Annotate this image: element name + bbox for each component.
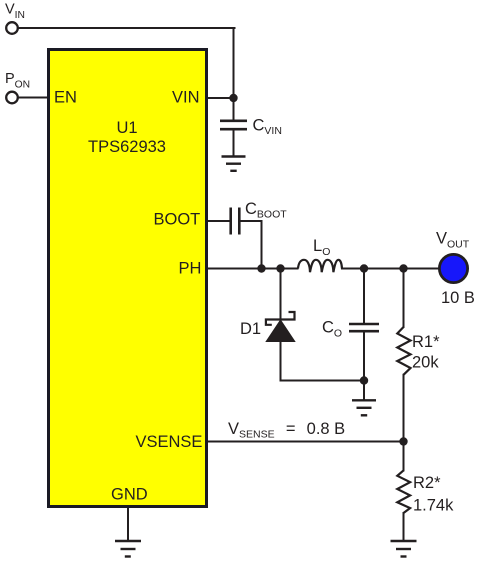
svg-text:BOOT: BOOT <box>154 211 201 229</box>
ground (R2) <box>391 541 417 557</box>
node junction D1/PH <box>276 264 284 272</box>
svg-text:EN: EN <box>54 89 77 107</box>
wire CVIN top <box>233 98 235 120</box>
terminal VOUT circle <box>439 254 467 282</box>
svg-text:CVIN: CVIN <box>253 117 282 138</box>
wire CO gnd <box>363 381 365 400</box>
wire LO to VOUT <box>342 268 439 270</box>
wire R1 bottom <box>403 375 405 442</box>
node junction VSENSE/R1/R2 <box>399 437 407 445</box>
wire CVIN bottom <box>233 130 235 156</box>
wire R2 gnd <box>403 513 405 541</box>
node junction VIN <box>229 94 237 102</box>
svg-text:10 В: 10 В <box>441 289 475 307</box>
wire VIN pin <box>206 97 234 99</box>
svg-text:VOUT: VOUT <box>436 230 470 251</box>
IC U1 body <box>49 50 207 507</box>
inductor LO <box>298 260 342 272</box>
svg-text:TPS62933: TPS62933 <box>88 138 166 156</box>
svg-text:R2*: R2* <box>413 474 441 492</box>
svg-text:CBOOT: CBOOT <box>245 200 287 221</box>
resistor R1 <box>397 327 410 375</box>
wire PON to EN <box>18 97 48 99</box>
node junction R1/PH <box>399 264 407 272</box>
wire CBOOT right <box>240 220 262 222</box>
wire D1 to CO gnd <box>281 380 365 382</box>
wire VSENSE pin <box>206 441 404 443</box>
wire VIN top <box>18 27 235 29</box>
svg-text:VSENSE = 0.8 В: VSENSE = 0.8 В <box>228 420 345 441</box>
wire CO bottom <box>363 332 365 381</box>
svg-text:R1*: R1* <box>412 333 440 351</box>
wire D1 top <box>280 269 282 320</box>
node junction CO/PH <box>360 264 368 272</box>
wire PH pin <box>206 268 298 270</box>
svg-text:LO: LO <box>313 237 330 258</box>
svg-text:20k: 20k <box>412 354 439 372</box>
svg-text:GND: GND <box>111 486 148 504</box>
wire D1 bottom <box>280 342 282 381</box>
svg-text:PON: PON <box>5 71 30 91</box>
wire CO top <box>363 269 365 323</box>
diode D1 (schottky) <box>266 312 295 342</box>
ground (GND) <box>115 541 141 557</box>
resistor R2 <box>397 470 410 513</box>
svg-text:VIN: VIN <box>172 89 200 107</box>
terminal PON circle <box>6 92 18 104</box>
ground (CVIN) <box>222 157 246 171</box>
wire GND stub <box>127 507 129 541</box>
capacitor CBOOT <box>231 208 240 235</box>
terminal VIN circle <box>6 22 18 34</box>
capacitor CO <box>349 324 379 331</box>
svg-text:CO: CO <box>322 319 342 340</box>
svg-text:D1: D1 <box>240 320 261 338</box>
capacitor CVIN <box>220 121 247 129</box>
wire BOOT pin <box>206 220 230 222</box>
svg-text:U1: U1 <box>116 119 137 137</box>
wire VIN vertical <box>233 28 235 98</box>
svg-text:VSENSE: VSENSE <box>136 433 203 451</box>
node junction CO/D1 gnd <box>360 376 368 384</box>
svg-text:VIN: VIN <box>5 2 25 22</box>
svg-text:1.74k: 1.74k <box>413 497 454 515</box>
wire CBOOT down <box>261 221 263 269</box>
ground (CO) <box>352 400 376 415</box>
node junction CBOOT/PH <box>257 264 265 272</box>
wire R1 top <box>403 269 405 328</box>
wire R2 top <box>403 442 405 471</box>
svg-text:PH: PH <box>179 260 202 278</box>
